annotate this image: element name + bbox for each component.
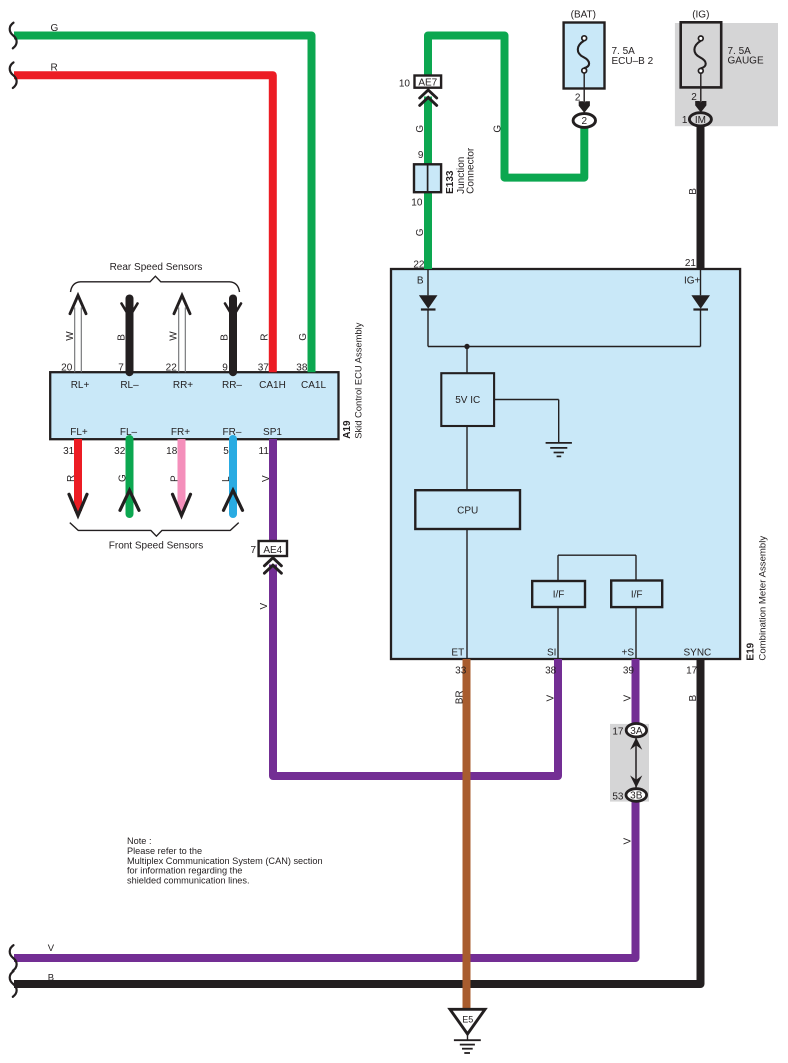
svg-text:G: G [415, 228, 426, 236]
svg-text:G: G [415, 125, 426, 133]
svg-text:Please refer to the: Please refer to the [127, 846, 202, 856]
svg-text:G: G [493, 125, 504, 133]
svg-text:RL–: RL– [120, 380, 139, 391]
svg-text:R: R [260, 333, 271, 340]
svg-text:IG+: IG+ [684, 276, 701, 287]
svg-text:(IG): (IG) [692, 9, 709, 20]
svg-text:V: V [545, 695, 556, 702]
svg-text:31: 31 [63, 446, 75, 457]
svg-text:7: 7 [118, 363, 124, 374]
svg-text:9: 9 [418, 150, 424, 161]
svg-text:G: G [298, 333, 309, 341]
svg-text:Skid Control ECU Assembly: Skid Control ECU Assembly [352, 322, 363, 438]
svg-text:IM: IM [695, 115, 706, 126]
svg-text:17: 17 [686, 665, 698, 676]
svg-text:A19: A19 [342, 420, 353, 439]
svg-text:22: 22 [166, 363, 178, 374]
svg-text:CPU: CPU [457, 505, 478, 516]
svg-text:Connector: Connector [465, 147, 476, 194]
svg-text:E5: E5 [462, 1015, 473, 1025]
svg-text:RR–: RR– [222, 380, 242, 391]
svg-text:10: 10 [399, 78, 411, 89]
svg-text:B: B [688, 695, 699, 702]
svg-text:1: 1 [682, 115, 688, 126]
svg-text:I/F: I/F [553, 589, 565, 600]
svg-text:RR+: RR+ [173, 380, 193, 391]
svg-text:+S: +S [621, 647, 634, 658]
svg-text:B: B [688, 188, 699, 195]
svg-text:2: 2 [575, 93, 581, 104]
svg-text:E133: E133 [445, 170, 456, 194]
svg-text:37: 37 [258, 363, 270, 374]
svg-text:Front Speed Sensors: Front Speed Sensors [109, 541, 204, 552]
svg-text:7: 7 [250, 545, 256, 556]
svg-text:FL–: FL– [120, 427, 138, 438]
svg-text:21: 21 [685, 258, 697, 269]
svg-text:BR: BR [454, 690, 465, 704]
svg-text:V: V [261, 475, 272, 482]
svg-text:shielded communication lines.: shielded communication lines. [127, 876, 250, 886]
svg-text:5: 5 [223, 446, 229, 457]
svg-text:B: B [48, 972, 54, 983]
svg-text:B: B [220, 334, 231, 341]
svg-text:3A: 3A [630, 726, 643, 737]
svg-text:B: B [117, 334, 128, 341]
svg-text:FL+: FL+ [70, 427, 88, 438]
svg-text:18: 18 [166, 446, 178, 457]
svg-text:CA1H: CA1H [259, 380, 286, 391]
svg-text:10: 10 [411, 198, 423, 209]
svg-text:Multiplex Communication System: Multiplex Communication System (CAN) sec… [127, 856, 323, 866]
svg-text:11: 11 [259, 446, 270, 457]
svg-text:for information regarding the: for information regarding the [127, 866, 242, 876]
svg-text:22: 22 [413, 259, 425, 270]
svg-text:(BAT): (BAT) [571, 9, 596, 20]
svg-text:R: R [66, 475, 77, 482]
svg-text:G: G [117, 474, 128, 482]
svg-text:Rear Speed Sensors: Rear Speed Sensors [110, 262, 203, 273]
svg-text:Note :: Note : [127, 836, 152, 846]
svg-text:V: V [623, 695, 634, 702]
svg-text:FR–: FR– [223, 427, 242, 438]
svg-text:V: V [623, 838, 634, 845]
svg-text:ECU–B 2: ECU–B 2 [612, 56, 654, 67]
svg-text:5V IC: 5V IC [455, 395, 480, 406]
svg-text:RL+: RL+ [71, 380, 90, 391]
svg-text:2: 2 [582, 116, 588, 127]
svg-text:17: 17 [612, 726, 624, 737]
svg-text:P: P [169, 475, 180, 482]
svg-text:W: W [168, 331, 179, 341]
svg-text:L: L [221, 476, 232, 482]
svg-text:FR+: FR+ [171, 427, 190, 438]
svg-text:SYNC: SYNC [684, 647, 712, 658]
svg-text:53: 53 [612, 791, 624, 802]
svg-text:V: V [259, 603, 270, 610]
svg-text:B: B [417, 276, 424, 287]
svg-text:39: 39 [623, 665, 635, 676]
svg-text:20: 20 [61, 363, 73, 374]
svg-text:SP1: SP1 [263, 427, 282, 438]
svg-text:38: 38 [545, 665, 557, 676]
svg-text:3B: 3B [630, 791, 643, 802]
svg-text:SI: SI [547, 647, 556, 658]
svg-text:ET: ET [451, 647, 464, 658]
svg-text:E19: E19 [745, 642, 756, 660]
svg-text:I/F: I/F [631, 589, 643, 600]
svg-text:W: W [65, 331, 76, 341]
svg-text:AE7: AE7 [418, 77, 437, 88]
svg-text:GAUGE: GAUGE [728, 55, 764, 66]
svg-text:R: R [51, 63, 58, 74]
svg-text:AE4: AE4 [263, 545, 282, 556]
svg-text:V: V [48, 943, 55, 954]
svg-text:2: 2 [691, 92, 697, 103]
svg-text:G: G [51, 23, 59, 34]
svg-text:33: 33 [455, 665, 467, 676]
svg-text:9: 9 [222, 363, 228, 374]
svg-text:38: 38 [296, 363, 308, 374]
svg-text:CA1L: CA1L [301, 380, 326, 391]
svg-text:Combination Meter Assembly: Combination Meter Assembly [757, 536, 768, 661]
svg-text:32: 32 [114, 446, 126, 457]
